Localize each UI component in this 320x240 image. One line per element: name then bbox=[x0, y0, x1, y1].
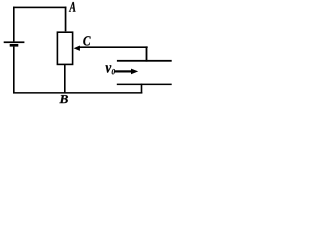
wiper shaft wire bbox=[79, 46, 148, 48]
node B bbox=[59, 95, 68, 103]
wire output rail upper bbox=[117, 60, 172, 62]
potentiometer R body bbox=[57, 32, 72, 64]
wire bottom horizontal bbox=[13, 92, 142, 94]
wire top horizontal bbox=[13, 7, 66, 9]
battery long plate bbox=[4, 41, 25, 43]
wire left vertical lower bbox=[13, 47, 15, 94]
wire bottom-right step vertical bbox=[141, 84, 143, 94]
node A bbox=[69, 2, 76, 12]
wire output rail lower bbox=[117, 84, 172, 86]
wire vertical from A corner to potentiometer top bbox=[65, 7, 67, 32]
battery short plate bbox=[10, 44, 19, 47]
wire potentiometer bottom stub bbox=[64, 65, 66, 93]
label v0 bbox=[106, 65, 112, 72]
wire left vertical upper bbox=[13, 7, 15, 42]
wire top-right step vertical bbox=[146, 46, 148, 61]
wiper arrowhead bbox=[74, 46, 80, 51]
node C bbox=[83, 36, 90, 45]
label v0 arrow bbox=[115, 70, 132, 72]
